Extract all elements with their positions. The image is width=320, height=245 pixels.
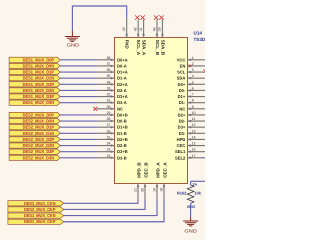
svg-text:14: 14 [192, 135, 196, 139]
svg-text:HPD: HPD [177, 137, 186, 142]
svg-text:NC: NC [179, 106, 185, 111]
svg-text:D3+A: D3+A [117, 94, 128, 99]
svg-text:DES1_MUX_D0N: DES1_MUX_D0N [23, 63, 54, 68]
svg-text:SCL: SCL [177, 70, 186, 75]
svg-text:10k: 10k [194, 191, 201, 196]
svg-text:23: 23 [107, 148, 111, 152]
svg-text:SEL1: SEL1 [175, 149, 186, 154]
svg-text:7: 7 [192, 93, 194, 97]
svg-text:DES2_MUX_D3P: DES2_MUX_D3P [23, 149, 55, 154]
svg-text:20: 20 [140, 188, 144, 192]
svg-text:22: 22 [107, 154, 111, 158]
svg-text:28: 28 [107, 117, 111, 121]
svg-text:D1-A: D1-A [117, 76, 127, 81]
svg-text:37: 37 [107, 62, 111, 66]
svg-text:D3+: D3+ [178, 125, 186, 130]
svg-text:PAD: PAD [125, 40, 130, 49]
svg-text:TS3DV642: TS3DV642 [194, 37, 206, 42]
svg-text:D2+B: D2+B [117, 137, 128, 142]
svg-text:HPD_A: HPD_A [155, 161, 160, 177]
svg-text:11: 11 [192, 117, 196, 121]
svg-text:DES2_MUX_D2P: DES2_MUX_D2P [23, 137, 55, 142]
svg-text:9: 9 [192, 105, 194, 109]
svg-text:35: 35 [107, 74, 111, 78]
svg-text:DES1_MUX_D1P: DES1_MUX_D1P [23, 70, 55, 75]
svg-text:43: 43 [122, 27, 126, 31]
svg-text:SDA_A: SDA_A [142, 40, 147, 56]
svg-text:D2-B: D2-B [117, 143, 127, 148]
svg-text:NC: NC [117, 106, 123, 111]
svg-text:25: 25 [107, 135, 111, 139]
svg-text:DES2_MUX_D0P: DES2_MUX_D0P [23, 112, 55, 117]
svg-text:21: 21 [133, 188, 137, 192]
svg-text:U14: U14 [194, 31, 203, 36]
svg-text:DES2_MUX_D0N: DES2_MUX_D0N [23, 119, 54, 124]
svg-text:6: 6 [192, 86, 194, 90]
svg-text:SCL_B: SCL_B [155, 40, 160, 56]
svg-text:DES2_MUX_D2N: DES2_MUX_D2N [23, 143, 54, 148]
svg-text:1%: 1% [192, 183, 197, 187]
svg-text:D1+A: D1+A [117, 70, 128, 75]
svg-text:5: 5 [192, 80, 194, 84]
svg-text:D1+B: D1+B [117, 125, 128, 130]
svg-text:27: 27 [107, 123, 111, 127]
svg-text:VCC: VCC [177, 57, 186, 62]
svg-text:33: 33 [107, 86, 111, 90]
svg-text:24: 24 [107, 142, 111, 146]
svg-text:19: 19 [152, 188, 156, 192]
svg-text:SEL2: SEL2 [175, 155, 186, 160]
svg-text:8: 8 [192, 99, 194, 103]
svg-text:13: 13 [192, 129, 196, 133]
svg-text:30: 30 [107, 105, 111, 109]
svg-text:18: 18 [159, 188, 163, 192]
svg-text:29: 29 [107, 111, 111, 115]
svg-text:SDA_B: SDA_B [160, 40, 165, 56]
svg-text:EN: EN [180, 63, 186, 68]
svg-text:12: 12 [192, 123, 196, 127]
svg-text:32: 32 [107, 93, 111, 97]
svg-text:D0-A: D0-A [117, 63, 127, 68]
svg-text:D2-: D2- [179, 119, 186, 124]
svg-text:CEC: CEC [177, 143, 186, 148]
svg-text:DES1_MUX_D3P: DES1_MUX_D3P [23, 94, 55, 99]
svg-text:CEC_A: CEC_A [162, 161, 167, 177]
svg-text:10: 10 [192, 111, 196, 115]
svg-text:36: 36 [107, 68, 111, 72]
svg-text:D3-B: D3-B [117, 155, 127, 160]
svg-text:DES1_MUX_D0P: DES1_MUX_D0P [23, 57, 55, 62]
svg-text:4: 4 [192, 74, 194, 78]
svg-text:DES2_MUX_D1N: DES2_MUX_D1N [23, 131, 54, 136]
svg-text:34: 34 [107, 80, 111, 84]
svg-text:31: 31 [107, 99, 111, 103]
svg-text:SDA: SDA [177, 76, 186, 81]
svg-text:D0+A: D0+A [117, 57, 128, 62]
svg-text:D1+: D1+ [178, 94, 186, 99]
svg-text:DES2_MUX_CKP: DES2_MUX_CKP [24, 207, 56, 212]
svg-text:DES1_MUX_D1N: DES1_MUX_D1N [23, 76, 54, 81]
svg-text:DES1_MUX_D2N: DES1_MUX_D2N [23, 88, 54, 93]
svg-text:SCL_A: SCL_A [136, 40, 141, 56]
svg-text:D2+: D2+ [178, 112, 186, 117]
svg-text:1: 1 [192, 56, 194, 60]
svg-text:D3+B: D3+B [117, 149, 128, 154]
svg-text:DES2_MUX_D3N: DES2_MUX_D3N [23, 155, 54, 160]
svg-text:DES1_MUX_CKN: DES1_MUX_CKN [24, 213, 56, 218]
svg-text:DES1_MUX_CKP: DES1_MUX_CKP [24, 219, 56, 224]
svg-text:D1-: D1- [179, 100, 186, 105]
svg-text:38: 38 [107, 56, 111, 60]
svg-text:DES1_MUX_D2P: DES1_MUX_D2P [23, 82, 55, 87]
svg-text:D0+B: D0+B [117, 112, 128, 117]
svg-text:D1-B: D1-B [117, 131, 127, 136]
svg-text:3: 3 [192, 68, 194, 72]
svg-text:D2+A: D2+A [117, 82, 128, 87]
svg-text:2: 2 [192, 62, 194, 66]
svg-text:D2-A: D2-A [117, 88, 127, 93]
svg-text:16: 16 [192, 148, 196, 152]
svg-text:41: 41 [139, 27, 143, 31]
svg-text:D3-A: D3-A [117, 100, 127, 105]
svg-text:17: 17 [192, 154, 196, 158]
svg-text:DES1_MUX_D3N: DES1_MUX_D3N [23, 100, 54, 105]
svg-text:CEC_B: CEC_B [143, 162, 148, 178]
svg-text:42: 42 [134, 27, 138, 31]
svg-text:D0+: D0+ [178, 82, 186, 87]
svg-text:26: 26 [107, 129, 111, 133]
svg-text:D0-: D0- [179, 88, 186, 93]
svg-text:DES2_MUX_CKN: DES2_MUX_CKN [24, 201, 56, 206]
svg-text:DES2_MUX_D1P: DES2_MUX_D1P [23, 125, 55, 130]
svg-text:39: 39 [158, 27, 162, 31]
svg-text:HPD_B: HPD_B [136, 162, 141, 178]
svg-text:GND: GND [67, 43, 80, 48]
svg-text:D3-: D3- [179, 131, 186, 136]
svg-text:15: 15 [192, 142, 196, 146]
svg-text:40: 40 [152, 27, 156, 31]
svg-text:GND: GND [184, 228, 197, 233]
svg-text:R162: R162 [177, 191, 187, 196]
svg-text:D0-B: D0-B [117, 119, 127, 124]
